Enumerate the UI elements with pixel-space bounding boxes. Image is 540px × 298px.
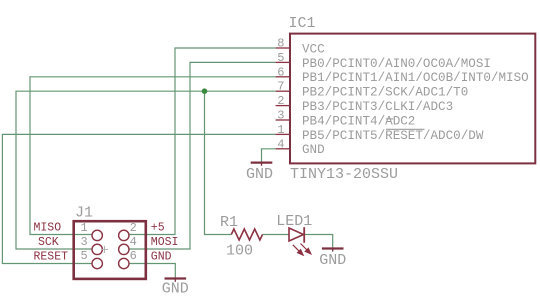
IC1 pin stub 5 <box>276 61 290 63</box>
svg-text:4: 4 <box>130 235 137 249</box>
LED1 arrow 1 <box>293 245 303 255</box>
svg-text:1: 1 <box>81 221 88 235</box>
svg-text:3: 3 <box>277 109 284 123</box>
svg-text:5: 5 <box>277 51 284 65</box>
ground symbol below J1 pin6 <box>162 277 189 297</box>
svg-text:R1: R1 <box>220 214 238 231</box>
IC1 pin stub 6 <box>276 76 290 78</box>
IC1 pin stub 8 <box>276 47 290 49</box>
IC1 pin stub 7 <box>276 90 290 92</box>
J1 pin circle 5 <box>92 258 102 268</box>
wire net SCK: IC pin7 to J1 pin3 <box>16 91 276 249</box>
svg-text:GND: GND <box>162 281 189 298</box>
junction dot on SCK net <box>202 88 208 94</box>
J1 pin circle 2 <box>119 230 129 240</box>
svg-text:RESET: RESET <box>34 251 69 264</box>
svg-text:PB4/PCINT4/ADC2: PB4/PCINT4/ADC2 <box>302 114 415 128</box>
svg-text:3: 3 <box>81 235 88 249</box>
svg-text:PB2/PCINT2/SCK/ADC1/T0: PB2/PCINT2/SCK/ADC1/T0 <box>302 86 468 100</box>
svg-text:PB3/PCINT3/CLKI/ADC3: PB3/PCINT3/CLKI/ADC3 <box>302 100 453 114</box>
svg-text:7: 7 <box>277 80 284 94</box>
IC1 pin stub 2 <box>276 105 290 107</box>
wire net MOSI: IC pin5 to J1 pin4 <box>129 62 276 249</box>
wire net RESET: IC pin1 to J1 pin5 <box>2 134 275 263</box>
svg-text:J1: J1 <box>75 205 93 222</box>
svg-text:TINY13-20SSU: TINY13-20SSU <box>290 166 398 183</box>
svg-text:LED1: LED1 <box>276 213 312 230</box>
svg-text:IC1: IC1 <box>289 15 316 32</box>
svg-text:MOSI: MOSI <box>151 236 179 249</box>
svg-text:VCC: VCC <box>302 42 325 56</box>
svg-text:PB1/PCINT1/AIN1/OC0B/INT0/MISO: PB1/PCINT1/AIN1/OC0B/INT0/MISO <box>302 71 529 85</box>
svg-text:6: 6 <box>130 249 137 263</box>
J1 pin circle 4 <box>119 244 129 254</box>
svg-text:SCK: SCK <box>38 236 59 249</box>
svg-text:1: 1 <box>277 123 284 137</box>
svg-text:GND: GND <box>151 251 172 264</box>
svg-text:GND: GND <box>302 143 325 157</box>
LED1 cathode bar <box>303 227 305 243</box>
svg-text:2: 2 <box>130 221 137 235</box>
connector J1 box <box>74 221 146 279</box>
wire net VCC: IC pin8 to J1 pin2 (+5) <box>129 48 276 235</box>
svg-text:PB0/PCINT0/AIN0/OC0A/MOSI: PB0/PCINT0/AIN0/OC0A/MOSI <box>302 57 491 71</box>
svg-text:+5: +5 <box>151 222 165 235</box>
IC1 pin stub 3 <box>276 119 290 121</box>
ground symbol below LED1 <box>319 247 346 269</box>
svg-text:4: 4 <box>277 137 284 151</box>
svg-text:6: 6 <box>277 65 284 79</box>
resistor R1 zigzag <box>231 229 262 240</box>
svg-text:8: 8 <box>277 37 284 51</box>
IC1 pin stub 1 <box>276 133 290 135</box>
IC1 pin name PB4 ADC2 bar <box>386 118 394 120</box>
IC U1/IC1 box outline <box>290 34 535 164</box>
wire branch SCK to R1 <box>205 91 232 234</box>
LED1 diode triangle <box>289 228 304 241</box>
svg-text:5: 5 <box>81 249 88 263</box>
IC1 pin name RESET overline <box>386 128 425 130</box>
wire net MISO: IC pin6 to J1 pin1 <box>30 77 276 235</box>
LED1 arrow 2 <box>301 244 311 254</box>
svg-text:GND: GND <box>319 252 346 269</box>
svg-text:GND: GND <box>246 166 273 183</box>
J1 pin circle 3 <box>92 244 102 254</box>
svg-text:PB5/PCINT5/RESET/ADC0/DW: PB5/PCINT5/RESET/ADC0/DW <box>302 129 484 143</box>
svg-text:MISO: MISO <box>34 222 62 235</box>
IC1 pin stub 4 <box>276 148 290 150</box>
wire LED1 cathode to ground <box>305 235 333 248</box>
wire J1 pin6 to ground <box>129 264 176 278</box>
svg-text:100: 100 <box>226 243 253 260</box>
svg-text:2: 2 <box>277 94 284 108</box>
J1 pin circle 6 <box>119 258 129 268</box>
J1 origin cross <box>101 246 108 253</box>
ground symbol below IC1 pin4 <box>246 162 273 184</box>
J1 pin circle 1 <box>92 230 102 240</box>
wire IC pin4 to ground <box>262 149 276 162</box>
wire R1 to LED1 <box>263 234 290 236</box>
